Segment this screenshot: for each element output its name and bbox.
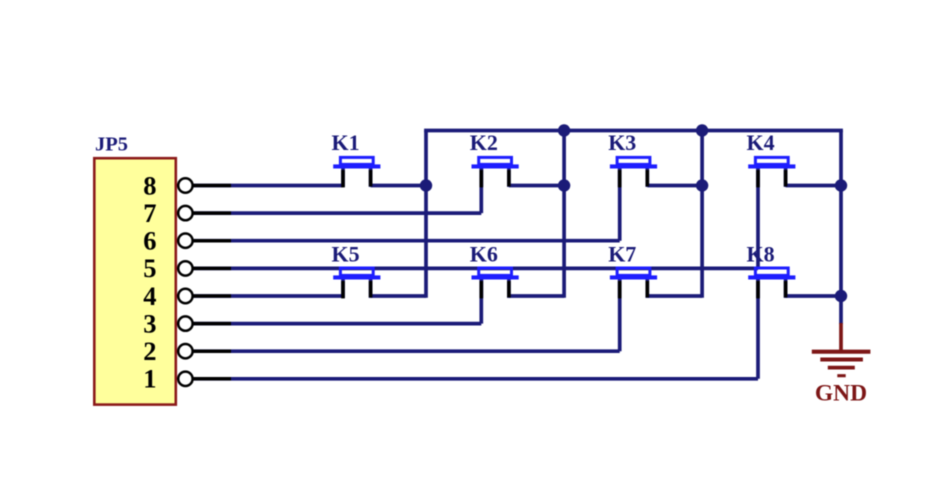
wire riser pin7 to K2 <box>479 166 483 213</box>
wire K4 output <box>786 184 841 188</box>
junction K4 output / column 4 <box>835 179 847 191</box>
junction K3 output / column 3 <box>696 179 708 191</box>
wire K8 output <box>786 294 841 298</box>
wire K3 output <box>647 184 702 188</box>
wire riser pin3 to K6 <box>479 277 483 323</box>
svg-text:K6: K6 <box>470 241 498 266</box>
wire K5 output <box>371 294 426 298</box>
push-button K8 <box>747 241 796 298</box>
wire from JP5 pin 6 <box>192 239 620 243</box>
svg-text:K8: K8 <box>747 241 775 266</box>
wire K1 output <box>371 184 426 188</box>
svg-text:K2: K2 <box>470 130 498 155</box>
junction top bus / column 2 <box>558 124 570 136</box>
push-button K1 <box>332 130 381 187</box>
pin 7 circle <box>178 206 192 220</box>
junction K1 output / column 1 <box>420 179 432 191</box>
svg-text:2: 2 <box>143 336 156 366</box>
wire column 2 vertical <box>562 131 566 298</box>
svg-text:K7: K7 <box>608 241 636 266</box>
wire top bus <box>424 129 843 133</box>
wire K2 output <box>509 184 564 188</box>
wire riser pin5 to K4 <box>756 166 760 268</box>
wire from JP5 pin 1 <box>192 377 758 381</box>
svg-text:K3: K3 <box>608 130 636 155</box>
push-button K4 <box>747 130 796 187</box>
svg-text:8: 8 <box>143 170 156 200</box>
wire riser pin2 to K7 <box>618 277 622 351</box>
connector JP5 <box>94 158 176 404</box>
svg-text:4: 4 <box>143 281 156 311</box>
pin 6 circle <box>178 234 192 248</box>
wire K6 output <box>509 294 564 298</box>
wire riser pin6 to K3 <box>618 166 622 240</box>
wire K7 output <box>647 294 702 298</box>
pin 2 circle <box>178 344 192 358</box>
wire riser pin1 to K8 <box>756 277 760 378</box>
svg-text:1: 1 <box>143 364 156 394</box>
svg-text:GND: GND <box>815 380 867 406</box>
wire from JP5 pin 3 <box>192 322 481 326</box>
svg-text:5: 5 <box>143 253 156 283</box>
push-button K2 <box>470 130 519 187</box>
wire from JP5 pin 5 <box>192 267 758 271</box>
push-button K5 <box>332 241 381 298</box>
wire GND vertical <box>839 131 843 325</box>
svg-text:7: 7 <box>143 198 156 228</box>
pin 4 circle <box>178 289 192 303</box>
svg-text:K4: K4 <box>747 130 775 155</box>
pin 5 circle <box>178 261 192 275</box>
push-button K7 <box>608 241 657 298</box>
junction K2 output / column 2 <box>558 179 570 191</box>
wire from JP5 pin 2 <box>192 349 620 353</box>
svg-text:K5: K5 <box>332 241 360 266</box>
wire from JP5 pin 8 <box>192 184 343 188</box>
svg-text:6: 6 <box>143 226 156 256</box>
push-button K3 <box>608 130 657 187</box>
svg-text:K1: K1 <box>332 130 360 155</box>
wire column 1 vertical <box>424 131 428 298</box>
svg-text:JP5: JP5 <box>95 133 128 155</box>
wire from JP5 pin 4 <box>192 294 344 298</box>
push-button K6 <box>470 241 519 298</box>
wire column 3 vertical <box>700 131 704 298</box>
ground GND <box>812 323 871 406</box>
pin 3 circle <box>178 316 192 330</box>
svg-text:3: 3 <box>143 308 156 338</box>
junction K8 output / GND vertical <box>835 290 847 302</box>
junction top bus / column 3 <box>696 124 708 136</box>
wire from JP5 pin 7 <box>192 211 481 215</box>
pin 1 circle <box>178 372 192 386</box>
pin 8 circle <box>178 178 192 192</box>
